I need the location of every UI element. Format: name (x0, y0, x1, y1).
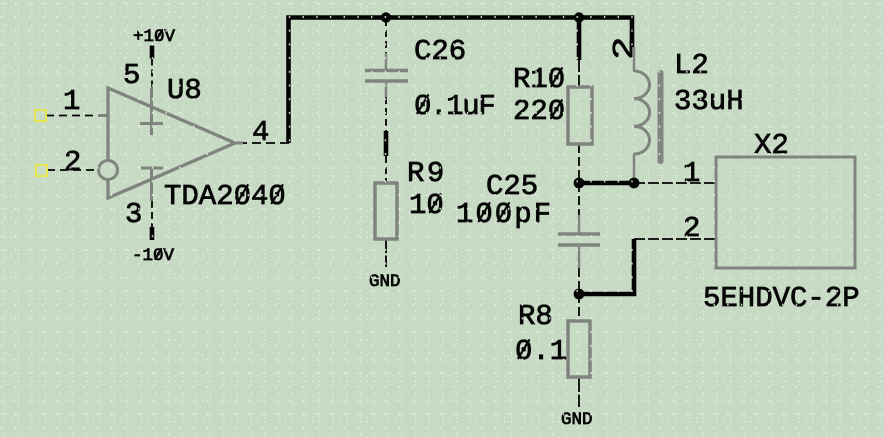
resistor R9 body (375, 183, 397, 239)
resistor R10 body (568, 87, 592, 144)
wire: -10V stub (150, 227, 155, 240)
wire: R10 lower lead (578, 144, 580, 183)
junction node L2 bottom (629, 178, 640, 189)
wire: X2 pin1 lead (634, 182, 716, 184)
op-amp minus symbol and pin3 internal lead (141, 167, 163, 170)
wire: node between R10/C25 and L2 bottom (579, 181, 634, 186)
junction dot on rail at C26 (381, 12, 391, 22)
wire: R10 top stub (577, 19, 582, 60)
connector X2 body (716, 157, 855, 268)
wire: R9 bottom lead to GND (385, 239, 387, 267)
resistor R8 body (568, 321, 590, 377)
wire: pin4 output lead (238, 142, 289, 144)
capacitor C26 plates (365, 69, 408, 73)
capacitor C26 pin stubs (385, 53, 388, 69)
op-amp U1 triangle (108, 88, 235, 198)
junction node C25/R8 (574, 289, 585, 300)
op-amp inverting bubble (99, 161, 118, 180)
inductor L2 pin stubs (633, 47, 636, 72)
inductor L2 core bar (658, 73, 664, 161)
wire: pin3 lead (151, 201, 153, 227)
wire: C25 top lead (578, 183, 580, 215)
capacitor C25 plates (558, 232, 600, 236)
junction dot on rail at R10 (574, 12, 584, 22)
slashed zero marks (155, 30, 562, 358)
capacitor C25 pin stubs (578, 215, 581, 233)
wire: op-amp pin2 lead (47, 169, 97, 171)
junction node R10/C25 (574, 178, 585, 189)
inductor L2 coil (634, 71, 650, 154)
wire: C26 top lead (385, 19, 387, 53)
wire: X2 pin2 to R8 node (579, 239, 634, 294)
op-amp output stub (234, 142, 243, 145)
wire: X2 pin2 lead (634, 238, 716, 240)
wire: pin5 lead (151, 59, 153, 89)
wire: C25 bottom lead (578, 268, 580, 294)
wire: C26 bottom lead (385, 97, 387, 131)
wire: R10 upper lead (578, 60, 580, 87)
op-amp pin1 stub (98, 114, 109, 117)
wire: R8 top lead (578, 294, 580, 321)
wire: +10V stub (150, 46, 155, 59)
wire: C26-R9 stub (384, 131, 389, 156)
pad pin1 (35, 110, 46, 121)
wire: R9 top lead (385, 156, 387, 183)
op-amp plus symbol and pin5 internal lead (150, 88, 153, 135)
wire: R8 bottom lead to GND (578, 377, 580, 407)
wire: top rail from op-amp output up and across to L2 (289, 18, 633, 144)
pad pin2 (36, 165, 47, 176)
wire: op-amp pin1 lead (46, 115, 98, 117)
